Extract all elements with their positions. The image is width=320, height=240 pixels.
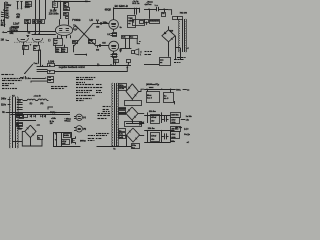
- arrow tick top right of notes: [20, 77, 23, 79]
- capacitor box 47uf 4v3: [62, 140, 70, 145]
- wire vertical x73.5: [73, 45, 75, 52]
- heater dashed bus: [14, 41, 44, 43]
- choke R (right): [38, 99, 47, 100]
- svg-text:IRF22: IRF22: [80, 141, 87, 143]
- T2 right taps to bridge 4: [118, 108, 126, 110]
- coupling capacitor C7: [100, 22, 102, 24]
- caption HT B&P Capacitor: [51, 86, 54, 88]
- filter row 1 wires: [144, 115, 170, 117]
- note text right of standby: [174, 59, 177, 61]
- output wire -Ex: [181, 119, 186, 121]
- wire drop x149: [149, 9, 151, 19]
- resistor callout 2% (a): [33, 20, 38, 24]
- callout box pair below V3: [122, 36, 130, 39]
- resistor box 9040k: [64, 134, 71, 138]
- svg-text:22k 5w: 22k 5w: [148, 128, 155, 130]
- plate resistor R5 1k 2W vertical: [53, 2, 58, 8]
- V2 grid wire y23.4: [96, 23, 109, 25]
- bridge rectifier B5: [127, 128, 140, 142]
- electrolytic C1 50u/450V callout box: [26, 2, 32, 7]
- tube heater arc (b): [32, 38, 42, 42]
- svg-text:1w: 1w: [5, 12, 8, 15]
- connector box upper: [48, 77, 54, 80]
- feedback bus upper y64.5: [54, 65, 131, 67]
- loudspeaker LS1: [132, 51, 135, 54]
- wire long vertical to switch: [38, 55, 40, 64]
- svg-text:(L): (L): [83, 117, 86, 119]
- HT drop to callout: [139, 8, 141, 13]
- svg-text:500+: 500+: [176, 90, 181, 92]
- label below TR2: [177, 57, 180, 59]
- svg-text:2%: 2%: [56, 51, 59, 53]
- V2 internal electrodes: [111, 23, 116, 25]
- svg-text:TRxxx: TRxxx: [64, 121, 71, 123]
- switch contact lines: [37, 66, 48, 68]
- choke L (left): [27, 99, 35, 100]
- wire into B2: [12, 141, 22, 143]
- svg-text:-| 8xxx: -| 8xxx: [146, 1, 153, 3]
- heater feed arrow upper: [25, 76, 27, 78]
- filter bus y89.2: [144, 89, 176, 91]
- standby box: [160, 58, 171, 66]
- feedback tap box a: [114, 60, 119, 63]
- screen resistor box TSE/GBSP: [128, 16, 136, 28]
- svg-text:1M: 1M: [96, 27, 99, 29]
- tube heater arc (a): [17, 38, 28, 42]
- fuse box 6A: [17, 123, 23, 127]
- tap callout box: [20, 115, 24, 119]
- bottom rail wire: [97, 146, 132, 148]
- B1 output wires: [168, 42, 170, 57]
- cap can box 1 (59ut): [147, 92, 160, 103]
- reservoir cap box 470uf: [38, 136, 43, 140]
- svg-text:iso 3: iso 3: [147, 98, 153, 100]
- tube V1 ECC83 envelope (dual triode ellipse): [55, 25, 72, 36]
- reservoir capacitor bars: [156, 7, 158, 11]
- wire vertical x60: [60, 1, 62, 19]
- wire to speaker: [121, 48, 132, 50]
- bottom rail: [144, 142, 170, 144]
- heater bus y112.5 (double line): [8, 112, 70, 114]
- wire below box2: [174, 101, 176, 104]
- svg-text:10.2 .2x: 10.2 .2x: [132, 3, 140, 5]
- svg-text:88.7: 88.7: [1, 25, 6, 27]
- wire bus y33.9: [32, 34, 56, 36]
- callout box top right of V2: [133, 20, 145, 26]
- wire vertical x45.5: [45, 0, 47, 19]
- box B/O 50u upper: [171, 113, 181, 118]
- svg-text:( ): ( ): [48, 40, 50, 42]
- svg-text:EC EBC-B: EC EBC-B: [115, 4, 128, 8]
- regulator rail wires: [53, 132, 72, 134]
- rectifier feed box 12v: [17, 114, 23, 118]
- cap box 4.7uf/4v3: [171, 118, 180, 124]
- ground at speaker return: [120, 48, 122, 50]
- svg-text:1M: 1M: [1, 40, 4, 42]
- mosfet Q3 IRF22: [71, 137, 73, 143]
- wire lower junction: [75, 54, 87, 56]
- svg-text:50u: 50u: [26, 2, 30, 4]
- svg-text:B10 50u: B10 50u: [171, 114, 179, 116]
- cap box 170uf/43v: [151, 133, 160, 142]
- cross-coupling wire B (plate V1 to upper grid): [74, 24, 97, 48]
- B3 lower wiring loop: [131, 99, 133, 100]
- T1 secondary taps: [17, 99, 23, 101]
- cross-coupling wire A (plate V1 to lower grid): [73, 25, 96, 46]
- svg-text:1w: 1w: [5, 6, 8, 9]
- cap box 47uf lower: [171, 132, 180, 139]
- resistor callout SET 1.5k: [25, 20, 31, 24]
- resistor 56k 2% (a): [56, 48, 62, 53]
- V1 grid/anode internal electrodes: [59, 28, 62, 30]
- svg-text:[M100mu/P]y: [M100mu/P]y: [146, 84, 160, 86]
- svg-text:7Y8RB: 7Y8RB: [72, 18, 81, 22]
- svg-text:110v: 110v: [1, 104, 7, 106]
- T2 left tap labels upper: [103, 106, 106, 108]
- screen wires down: [134, 8, 136, 15]
- series diodes pair 1: [30, 115, 32, 117]
- capacitor callout 2k: [64, 3, 69, 7]
- wire with arrow into bridge: [146, 22, 148, 24]
- cap box 470uf/40v: [151, 115, 160, 124]
- notes paragraph block 1: [2, 78, 3, 80]
- small callout: [66, 17, 69, 19]
- T2 mid tap callout boxes: [119, 108, 126, 110]
- svg-text:(P): (P): [139, 124, 142, 126]
- V3 grid wire y45.6: [96, 45, 109, 47]
- capacitor callout 10n: [64, 13, 69, 16]
- note line bottom-left: [1, 74, 4, 76]
- transistor Q1 (L) TO-can: [76, 114, 82, 120]
- electrolytic symbol bars: [164, 116, 166, 122]
- svg-text:1u 10x: 1u 10x: [186, 116, 193, 118]
- svg-text:GBDB/DK: GBDB/DK: [150, 21, 160, 23]
- svg-text:~ 6Bxx: ~ 6Bxx: [64, 118, 72, 120]
- wire bottom of standby: [144, 64, 159, 66]
- svg-text:1.5w: 1.5w: [26, 78, 31, 80]
- feedback bus lower y71.5: [54, 65, 127, 72]
- tube V2 output pentode envelope: [109, 20, 119, 30]
- capacitor callout 100n: [64, 8, 70, 11]
- ground symbol below volume: [26, 35, 29, 37]
- svg-text:(R): (R): [83, 129, 86, 131]
- top HT bus: [54, 1, 90, 3]
- svg-text:50(2)w: 50(2)w: [50, 112, 57, 114]
- bottom rail: [53, 146, 80, 148]
- svg-text:22k 5w: 22k 5w: [149, 111, 156, 113]
- HT rail from rectifier: [144, 9, 156, 11]
- V2 cathode network: [113, 29, 115, 32]
- svg-text:2w: 2w: [64, 5, 67, 7]
- B1 top lead: [168, 26, 170, 30]
- feedback terminal box upper: [48, 64, 55, 67]
- svg-text:781 190: 781 190: [180, 13, 188, 15]
- wire grid node to tube: [27, 24, 29, 32]
- feedback tap box b: [127, 60, 131, 63]
- output transformer T2 (center bottom): [112, 83, 113, 86]
- node +30 junction: [3, 9, 4, 10]
- wire vertical x35: [35, 0, 37, 19]
- indicator circle at V1 pin: [73, 26, 77, 30]
- rectifier note text: [145, 51, 147, 53]
- svg-text:2x9: 2x9: [18, 101, 21, 103]
- callout BDB/xx: [89, 40, 96, 44]
- diode D1 vertical: [17, 2, 19, 9]
- box label 2/xx above resistors: [54, 39, 63, 46]
- B5 wires: [140, 135, 145, 137]
- svg-text:2G: 2G: [50, 123, 53, 125]
- svg-text:LU: LU: [90, 19, 94, 22]
- diode D2 vertical: [21, 2, 23, 9]
- svg-text:2.2uF: 2.2uF: [13, 23, 20, 26]
- bridge rectifier B4: [126, 107, 138, 120]
- electrolytic symbol bars lower: [164, 133, 166, 139]
- V2 anode wire to top bus: [113, 8, 115, 20]
- grid stub + label 1.5 / 1M: [97, 21, 99, 23]
- corner bracket: [48, 107, 53, 110]
- svg-text:+10b: +10b: [51, 118, 57, 120]
- wire second vertical: [40, 50, 42, 67]
- svg-text:1M: 1M: [96, 50, 99, 52]
- svg-text:98k: 98k: [10, 32, 15, 35]
- svg-text:1k 2W: 1k 2W: [50, 10, 57, 12]
- B4 wires: [138, 113, 144, 115]
- V3 cathode network: [113, 51, 115, 53]
- wire verticals above speaker: [125, 38, 127, 48]
- T2 right tap callouts lower: [119, 129, 126, 132]
- cap box below B5: [132, 144, 140, 149]
- svg-text:{: {: [140, 54, 141, 56]
- wires down from caps: [23, 49, 25, 55]
- note text right of mosfet: [88, 135, 90, 137]
- snubber box 10n: [162, 13, 166, 17]
- wire y120: [15, 120, 36, 122]
- mains transformer T1: [9, 97, 10, 100]
- connector box lower: [48, 80, 54, 83]
- bridge rectifier B1 (main HT): [162, 30, 175, 42]
- resistor 56k 2% (b): [62, 48, 68, 53]
- T2 right tap callout 1.5u: [119, 88, 127, 91]
- svg-text:220 100n: 220 100n: [49, 14, 59, 16]
- coupling capacitor C8: [99, 44, 101, 47]
- svg-text:(L): (L): [30, 103, 33, 105]
- V1 cathode leads down: [57, 35, 59, 38]
- wire input bus y31.6: [7, 31, 56, 33]
- V3 internal electrodes: [111, 45, 116, 47]
- power transformer TR2 (right edge): [179, 19, 180, 21]
- wires cathode network: [55, 45, 57, 48]
- svg-text:1w: 1w: [5, 15, 8, 17]
- series diodes pair 2: [40, 115, 42, 117]
- svg-text:negative feedback control: negative feedback control: [59, 65, 85, 69]
- svg-text:B+(-)x: B+(-)x: [184, 134, 191, 136]
- T2 upper left tap labels: [96, 84, 99, 86]
- transistor Q2 (R) TO-can: [76, 126, 82, 132]
- wire to HT connector lower: [31, 81, 48, 83]
- callout xx: [73, 41, 78, 44]
- HT bus y7.8 right: [114, 8, 140, 10]
- elbow to transformer: [168, 10, 172, 15]
- svg-text:(R): (R): [40, 103, 43, 105]
- V3 cathode to feedback bus: [113, 57, 115, 65]
- svg-text:+|x/7xx: +|x/7xx: [144, 4, 152, 6]
- wire to HT connector upper: [32, 78, 46, 80]
- note text left of T2: [96, 133, 97, 135]
- notes paragraph block 2b: [76, 95, 78, 97]
- arrow down on feedback: [126, 67, 128, 69]
- svg-text:170uf: 170uf: [151, 135, 156, 137]
- T2 left tap labels mid: [98, 113, 101, 115]
- svg-text:x: x: [42, 65, 43, 67]
- B3 output wire to bus: [139, 89, 145, 91]
- bias supply rail (left edge): [4, 2, 6, 27]
- svg-text:100n: 100n: [64, 9, 70, 11]
- tube V3 output pentode envelope: [109, 41, 119, 51]
- choke feed wires: [23, 100, 28, 102]
- V1 anode leads up: [59, 19, 61, 25]
- svg-text:(-): (-): [97, 65, 100, 67]
- svg-text:2%: 2%: [62, 51, 65, 53]
- svg-text:+1.5u: +1.5u: [119, 88, 125, 90]
- cap can box 2 (1u): [164, 93, 174, 103]
- bridge rectifier B3: [126, 84, 138, 99]
- bridge rectifier B2 (bottom left): [25, 125, 36, 137]
- wire vertical x39: [39, 0, 41, 19]
- audio input terminal with arrow: [2, 31, 4, 33]
- callout GBDB/DK: [150, 20, 160, 24]
- svg-text:100n: 100n: [103, 22, 108, 24]
- svg-text:+Cxx B: +Cxx B: [34, 96, 42, 98]
- T2 right tap callout 302n: [119, 84, 127, 87]
- svg-text:6BQ5: 6BQ5: [105, 10, 112, 12]
- notes paragraph block 2 (center): [76, 77, 79, 79]
- svg-text:(wB): (wB): [119, 137, 123, 139]
- capacitor 10u callout: [38, 42, 40, 45]
- svg-text:10n: 10n: [64, 13, 68, 15]
- filter bus y130.6: [144, 130, 174, 132]
- B2 loop wiring: [22, 131, 42, 146]
- feedback terminal box lower: [48, 71, 55, 74]
- small box before diodes: [24, 115, 28, 118]
- filter row 2 wires: [147, 131, 149, 143]
- B4 lower wiring loop: [125, 122, 142, 127]
- mains callout boxes: [173, 17, 178, 20]
- resistor callout 2% (b): [39, 20, 45, 24]
- output jack bracket: [137, 39, 140, 44]
- svg-text:- 2x 2x: - 2x 2x: [132, 1, 139, 3]
- rotary switch lever: [25, 64, 33, 73]
- capacitor 100n callout: [23, 42, 25, 45]
- box 450 50u: [171, 127, 181, 132]
